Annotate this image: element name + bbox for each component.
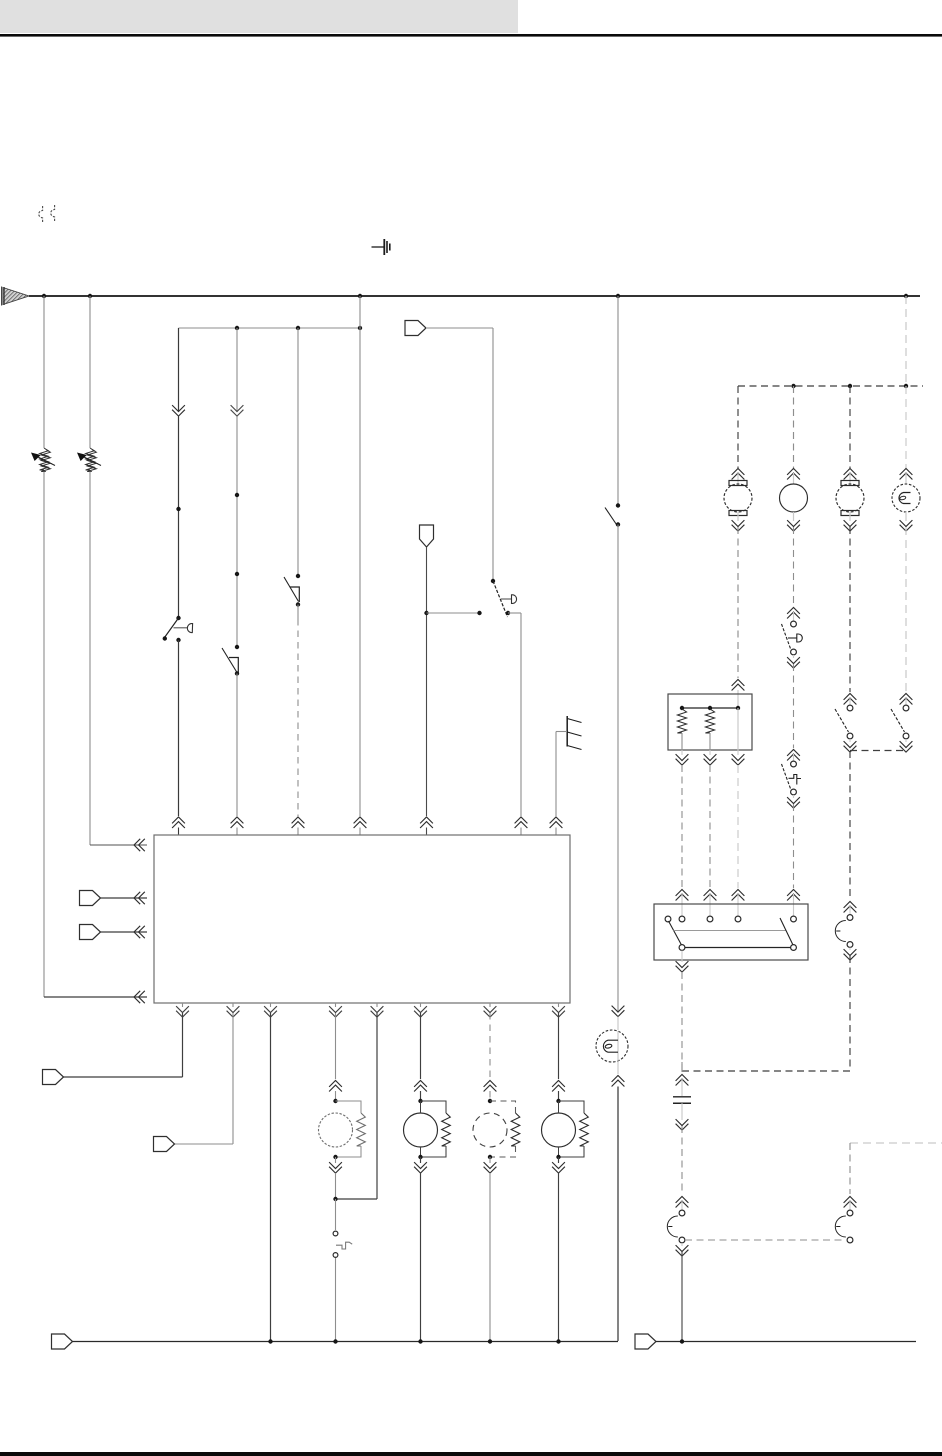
connector marker into module pin L3 [134, 926, 145, 938]
lamp L2 filament [899, 493, 911, 504]
node rp/682 [680, 706, 684, 710]
marker above switch S7 [787, 750, 800, 761]
switch S9 stub a [905, 698, 907, 705]
module output stub 6 [420, 1003, 422, 1007]
wire 850 bottom a [849, 1143, 851, 1194]
module output stub 1 [182, 1003, 184, 1007]
wire 850 mid [849, 527, 851, 692]
wire 793 sw chain c [793, 804, 795, 888]
motor MC resistor link top [490, 1101, 516, 1113]
marker below switch S7 [787, 797, 800, 808]
node motor MA - [333, 1155, 337, 1159]
connector C6 shell [835, 1216, 845, 1237]
pressure switch S10 top [333, 1231, 338, 1236]
harness marker 178 [172, 405, 185, 416]
circuit breaker CB2 element2 [87, 450, 96, 472]
switch S6 actuator cam [797, 634, 803, 642]
marker above motor MB [414, 1081, 427, 1092]
marker below connector C5 [676, 1245, 689, 1256]
indicator lamp L1 body [596, 1030, 628, 1062]
connector marker into module T4 [354, 817, 367, 828]
fan switch blade 2 [780, 918, 793, 945]
node gnd/335 [333, 1339, 337, 1343]
switch S8 bottom contact [847, 733, 853, 739]
marker module output 6 [414, 1006, 427, 1017]
circuit breaker CB2 element [86, 448, 95, 470]
switch S2 blade [222, 648, 237, 673]
connector C5 pin 2 [679, 1237, 685, 1243]
node gnd/490 [488, 1339, 492, 1343]
wire 178 stub [178, 828, 180, 836]
wire 237 stub [236, 828, 238, 836]
node 237/574 [235, 572, 239, 576]
marker below motor M5 stub [737, 512, 739, 521]
motor MA resistor link bot [336, 1146, 362, 1157]
wire 377 down [376, 1013, 378, 1199]
node switch S5 bottom [616, 522, 620, 526]
S6 stub a [793, 612, 795, 621]
wire dash y1240 [685, 1239, 846, 1241]
marker into relay 794 stub [793, 894, 795, 916]
node motor MB - [418, 1155, 422, 1159]
wire 237 b [236, 417, 238, 648]
motor MA body [319, 1113, 353, 1147]
resistor of motor MB [442, 1113, 451, 1146]
marker into relay 682 stub [681, 894, 683, 916]
wire 90 to module [90, 844, 147, 846]
fan switch terminal E [791, 916, 797, 922]
marker above switch S9 [900, 694, 913, 705]
resistor pack bus bar [682, 707, 738, 709]
wire 618 b [617, 525, 619, 1012]
wire MB stub b [420, 1157, 422, 1163]
wire MC to bus [489, 1173, 491, 1341]
fan switch linkage [674, 930, 787, 932]
wire MA down [335, 1173, 337, 1199]
fusible link F1 [39, 206, 43, 222]
marker above motor MA [329, 1081, 342, 1092]
marker module output 1 [176, 1006, 189, 1017]
pressure switch S10 actuator [336, 1242, 352, 1249]
fan switch terminal D [735, 916, 741, 922]
wire 426 down [426, 547, 428, 816]
cap stub b [681, 1103, 683, 1120]
wire 44 to module [44, 996, 147, 998]
node switch S1 top [176, 616, 180, 620]
wire ground bus left [73, 1341, 619, 1343]
capacitor C4 plate2 [673, 1102, 691, 1104]
wire 906 mid [905, 527, 907, 692]
fan switch common A [679, 945, 685, 951]
motor MD body [542, 1113, 576, 1147]
resistor of motor MA [357, 1113, 366, 1146]
marker above motor M7 stub [849, 473, 851, 484]
marker below capacitor [676, 1119, 689, 1130]
wire 298 stub [297, 828, 299, 836]
switch S8 blade [835, 709, 849, 732]
harness marker 618 lower [612, 1076, 625, 1087]
wire 793 to motor [793, 386, 795, 468]
fan switch box [654, 904, 808, 960]
marker above lamp L2 [900, 469, 913, 480]
node motor MA + [333, 1099, 337, 1103]
wire 178 c [178, 640, 180, 816]
node switch S1 throw [163, 636, 167, 640]
wire 618 d [617, 1062, 619, 1074]
switch S1 blade [165, 618, 179, 638]
connector C5 shell [667, 1216, 677, 1237]
wire C7 to module [101, 897, 148, 899]
circuit breaker CB1 element2 [41, 450, 50, 472]
wire 178 a [178, 328, 180, 411]
wire 738 to motor [737, 386, 739, 468]
node 178/509 [176, 507, 180, 511]
node gnd/558 [556, 1339, 560, 1343]
motor M5 body [724, 484, 752, 512]
marker below lamp L2 [900, 520, 913, 531]
inline connector C9 [43, 1070, 64, 1085]
marker above switch S8 [844, 694, 857, 705]
switch S3 blade [284, 577, 299, 602]
wire S4 out [508, 612, 521, 614]
switch S8 top contact [847, 705, 853, 711]
marker below rp 710 [704, 754, 717, 765]
node MA/1199 [333, 1197, 337, 1201]
connector marker into module T7 [550, 817, 563, 828]
wire 493 down [492, 328, 494, 581]
switch S9 top contact [903, 705, 909, 711]
wire 738 to relay box [737, 765, 739, 888]
node motor MD - [556, 1155, 560, 1159]
wire 738 into box [737, 690, 739, 708]
marker above switch S6 [787, 608, 800, 619]
inline connector C2 [420, 525, 434, 547]
marker below fan switch [676, 961, 689, 972]
module output stub 3 [270, 1003, 272, 1007]
wire 90 upper [89, 296, 91, 448]
capacitor C4 plate1 [673, 1096, 691, 1098]
wire MB stub mb [420, 1147, 422, 1157]
wire MB feed [420, 1013, 422, 1079]
harness marker 237 [231, 405, 244, 416]
motor MB resistor link top [421, 1101, 447, 1113]
connector C3 pin 2 [847, 942, 853, 948]
wire MA to bus [335, 1258, 337, 1341]
fusible link F2 [51, 205, 55, 221]
pressure switch S10 bottom [333, 1253, 338, 1258]
marker below motor MD [552, 1162, 565, 1173]
wire 521 stub [520, 828, 522, 836]
node motor MD + [556, 1099, 560, 1103]
marker into relay 710 [704, 890, 717, 901]
node S4 fixed contact [477, 611, 481, 615]
switch S6 blade [782, 624, 792, 650]
fan switch common bar [685, 947, 791, 949]
wire ground lead [556, 731, 567, 733]
wire 521 down [520, 613, 522, 816]
C6 stub a [849, 1201, 851, 1210]
ground (right-facing) near node [372, 239, 390, 255]
motor M7 body [836, 484, 864, 512]
wire MC stub t [489, 1091, 491, 1101]
switch S4 blade [493, 581, 508, 617]
wire MC stub b [489, 1157, 491, 1163]
resistor R1 [677, 709, 686, 733]
node y328/x360 [358, 326, 362, 330]
motor MD resistor link bot [559, 1146, 585, 1157]
wire MD to bus [558, 1173, 560, 1341]
marker above motor M6 [787, 469, 800, 480]
marker module output 7 [484, 1006, 497, 1017]
circuit breaker CB1 arrow [31, 453, 55, 466]
wire 377 left [336, 1198, 378, 1200]
C3 stub a [849, 906, 851, 914]
wire MD feed [558, 1013, 560, 1079]
marker below motor M6 [787, 520, 800, 531]
switch S7 blade [782, 764, 792, 790]
inline connector C1 [405, 321, 426, 336]
chassis ground G1 [567, 716, 581, 750]
node switch S2 bottom [235, 671, 239, 675]
resistor of motor MC [511, 1113, 520, 1146]
wire 298 dashed [297, 619, 299, 816]
switch S6 actuator rod [788, 637, 797, 639]
node bus/J3 [358, 294, 362, 298]
node switch S1 bottom [176, 638, 180, 642]
resistor R2 [705, 709, 714, 733]
module output stub 2 [232, 1003, 234, 1007]
wire 682 to relay box [681, 765, 683, 888]
connector C3 shell [835, 921, 845, 942]
circuit breaker CB2 arrow [77, 453, 101, 466]
switch S9 blade [891, 709, 905, 732]
marker below motor M7 [844, 520, 857, 531]
wire 906 from bus [905, 296, 907, 386]
marker above lamp L2 stub [905, 473, 907, 484]
marker below motor M6 stub [793, 512, 795, 521]
wire 682 corner stub [681, 1062, 683, 1072]
motor MC resistor link bot [490, 1146, 516, 1157]
wire dash y1143 [850, 1142, 942, 1144]
top rule [0, 34, 942, 37]
harness marker 618 upper [612, 1006, 625, 1017]
wire MD stub mt [558, 1101, 560, 1113]
marker above motor M7 [844, 469, 857, 480]
C5 stub b [681, 1243, 683, 1246]
node y328/x237 [235, 326, 239, 330]
switch S1 actuator rod [174, 627, 188, 629]
wire sub-bus y328 [179, 327, 361, 329]
wire 335 feed [335, 1013, 337, 1079]
node 237/495 [235, 493, 239, 497]
connector C6 pin 2 [847, 1237, 853, 1243]
module output stub 8 [558, 1003, 560, 1007]
connector marker into module pin L1 [134, 839, 145, 851]
marker below rp 682 [676, 754, 689, 765]
wire 44 lower [43, 472, 45, 998]
module output stub 5 [376, 1003, 378, 1007]
motor M7 brush caps [841, 481, 859, 516]
switch S5 blade [605, 508, 618, 527]
node motor MB + [418, 1099, 422, 1103]
resistor R2 tail [709, 733, 711, 750]
node switch S4 top [491, 579, 495, 583]
wire MA down2 [335, 1199, 337, 1230]
switch S7 actuator (push) [789, 775, 802, 785]
wire 906 to lamp [905, 386, 907, 468]
wire 738 through box [737, 708, 739, 750]
marker below rp 682 stub [681, 750, 683, 755]
marker above capacitor [676, 1075, 689, 1086]
connector C6 pin 1 [847, 1210, 853, 1216]
wire 237 c [236, 674, 238, 817]
marker module output 3 [264, 1006, 277, 1017]
connector marker into module T1 [172, 817, 185, 828]
motor M6 body [780, 484, 808, 512]
connector marker into module T6 [515, 817, 528, 828]
node switch S3 top [296, 574, 300, 578]
connector marker into module pin L2 [134, 892, 145, 904]
marker below motor M7 stub [849, 512, 851, 521]
wire dash y1071 [682, 1070, 850, 1072]
switch S2 bracket [229, 658, 238, 673]
wire MB stub t [420, 1091, 422, 1101]
header gray bar [0, 0, 518, 33]
marker below switch S8 [844, 741, 857, 752]
connector marker into module T5 [420, 817, 433, 828]
node y328/x298 [296, 326, 300, 330]
marker below rp 710 stub [709, 750, 711, 755]
node bus/J4 [616, 294, 620, 298]
wire 850 to motor [849, 386, 851, 468]
inline connector C12 [635, 1334, 656, 1349]
wire 426-479 [427, 612, 480, 614]
motor MB body [404, 1113, 438, 1147]
wire C8 to module [101, 931, 148, 933]
circuit breaker CB1 element [40, 448, 49, 470]
marker below switch S9 [900, 741, 913, 752]
node 426/613 [424, 611, 428, 615]
marker above motor MD [552, 1081, 565, 1092]
wire C1 to 493 [426, 327, 493, 329]
marker into relay 710 stub [709, 894, 711, 916]
wire 793 sw chain b [793, 664, 795, 748]
wire dash y386 [738, 385, 923, 387]
fan switch terminal C [707, 916, 713, 922]
marker module output 4 [329, 1006, 342, 1017]
inline connector C7 [80, 891, 101, 906]
resistor of motor MD [580, 1113, 589, 1146]
marker below motor M5 [732, 520, 745, 531]
node motor MC + [488, 1099, 492, 1103]
switch S9 bottom contact [903, 733, 909, 739]
marker below rp 738 stub [737, 750, 739, 755]
node bus/J1 [42, 294, 46, 298]
wire 298 a [297, 328, 299, 576]
marker into relay 738 [732, 890, 745, 901]
wire 738 mid [737, 527, 739, 678]
wire 233 down [232, 1013, 234, 1144]
node y386/850 [848, 384, 852, 388]
indicator lamp L1 wire-through [617, 1031, 619, 1061]
wire 360 stub [359, 828, 361, 836]
node switch S5 top [616, 503, 620, 507]
S7 stub b [793, 795, 795, 798]
fan switch common B [791, 945, 797, 951]
connector marker into module T2 [231, 817, 244, 828]
wire 682 to ground bus [681, 1252, 683, 1341]
indicator lamp L1 loop [605, 1044, 612, 1049]
control module U1 [154, 835, 570, 1003]
node switch S2 top [235, 645, 239, 649]
marker module output 2 [227, 1006, 240, 1017]
wire MD stub b [558, 1157, 560, 1163]
node bus/J5 [904, 294, 908, 298]
wire 182 down [182, 1013, 184, 1077]
wire 298 b [297, 605, 299, 620]
wire 233 left [175, 1143, 234, 1145]
node gnd/682 [680, 1339, 684, 1343]
marker above motor M5 stub [737, 473, 739, 484]
fan switch terminal A [665, 916, 671, 922]
supply arrow (hatched triangle) [2, 287, 29, 306]
motor MC body [473, 1113, 507, 1147]
node gnd/270 [268, 1339, 272, 1343]
inline connector C8 [80, 925, 101, 940]
marker above motor M5 [732, 469, 745, 480]
S6 stub b [793, 655, 795, 658]
marker above motor MC [484, 1081, 497, 1092]
wire 426 stub [426, 828, 428, 836]
connector C5 pin 1 [679, 1210, 685, 1216]
module output stub 4 [335, 1003, 337, 1007]
wire 850 lower a [849, 751, 851, 900]
marker above connector C5 [676, 1197, 689, 1208]
C3 stub b [849, 948, 851, 951]
switch S4 actuator rod [501, 598, 511, 600]
wire 556 stub [555, 828, 557, 836]
module output stub 7 [489, 1003, 491, 1007]
connector marker into module T3 [292, 817, 305, 828]
switch S1 actuator cam [187, 624, 192, 633]
marker above motor M6 stub [793, 473, 795, 484]
cap stub a [681, 1079, 683, 1096]
marker below motor MC [484, 1162, 497, 1173]
node bus/J2 [88, 294, 92, 298]
marker below motor MB [414, 1162, 427, 1173]
node rp/710 [708, 706, 712, 710]
wire 618 c [617, 1017, 619, 1030]
marker above resistor box [732, 680, 745, 691]
wire MA stub t [335, 1091, 337, 1101]
marker into relay 682 [676, 890, 689, 901]
wire 178 b [178, 417, 180, 619]
marker below switch S6 [787, 657, 800, 668]
node gnd/420 [418, 1339, 422, 1343]
switch S4 actuator cam [512, 595, 517, 604]
switch S7 top contact [791, 761, 797, 767]
connector marker into module pin L4 [134, 991, 145, 1003]
marker into relay 794 [787, 890, 800, 901]
marker below connector C3 [844, 949, 857, 960]
fan switch terminal B [679, 916, 685, 922]
wire 90 lower [89, 472, 91, 846]
marker above connector C3 [844, 902, 857, 913]
node switch S4 common [506, 611, 510, 615]
inline connector C11 [52, 1334, 73, 1349]
switch S7 bottom contact [791, 789, 797, 795]
bottom rule [0, 1452, 942, 1456]
